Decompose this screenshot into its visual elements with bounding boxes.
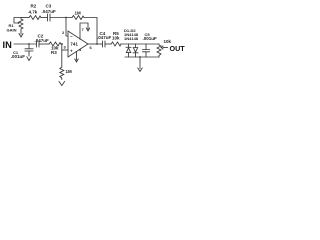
- svg-text:GAIN: GAIN: [7, 28, 17, 33]
- svg-text:IN: IN: [3, 40, 13, 50]
- svg-text:741: 741: [70, 41, 78, 46]
- svg-text:3: 3: [64, 45, 67, 50]
- svg-text:.047uF: .047uF: [97, 35, 112, 40]
- svg-text:+: +: [70, 49, 73, 54]
- svg-text:R3: R3: [51, 50, 57, 55]
- svg-text:.047uF: .047uF: [42, 9, 57, 14]
- svg-text:.001uF: .001uF: [11, 54, 26, 59]
- svg-text:1M: 1M: [75, 11, 82, 16]
- svg-text:1M: 1M: [66, 69, 73, 74]
- svg-text:1N4148: 1N4148: [124, 36, 139, 41]
- svg-text:7: 7: [82, 27, 85, 32]
- svg-text:10k: 10k: [112, 36, 120, 41]
- svg-text:−: −: [70, 34, 73, 39]
- svg-text:R2: R2: [31, 4, 37, 9]
- svg-text:.047uF: .047uF: [35, 38, 50, 43]
- svg-text:4.7k: 4.7k: [29, 9, 38, 14]
- svg-text:OUT: OUT: [170, 44, 186, 53]
- svg-text:2: 2: [62, 30, 65, 35]
- svg-text:.001uF: .001uF: [143, 36, 158, 41]
- svg-text:6: 6: [90, 45, 93, 50]
